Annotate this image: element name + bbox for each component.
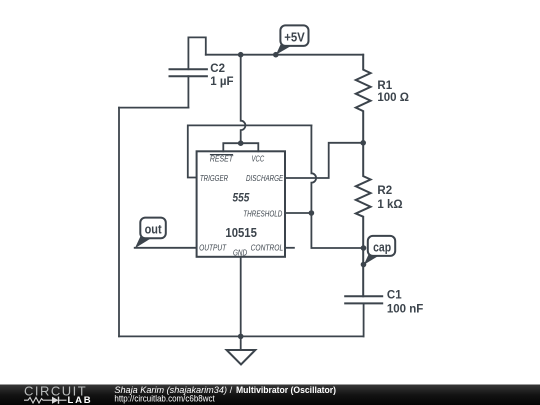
svg-text:CONTROL: CONTROL <box>251 242 284 252</box>
wire C2 bottom to left rail <box>119 107 188 109</box>
RESET overline <box>211 154 233 156</box>
svg-text:DISCHARGE: DISCHARGE <box>246 173 283 183</box>
resistor R2 <box>356 143 371 296</box>
svg-text:+5V: +5V <box>284 30 305 44</box>
resistor R1 <box>356 55 371 143</box>
node dot R1/R2/discharge <box>360 140 366 146</box>
svg-text:GND: GND <box>233 247 247 257</box>
C1 value label <box>387 290 423 316</box>
node dot cap flag <box>361 262 367 268</box>
wire THRESHOLD pin <box>285 212 311 214</box>
wire bottom rail (ground net) <box>119 335 364 337</box>
op-amp / IC 555 box U1 <box>197 151 285 256</box>
wire top rail (+5V net) <box>206 54 363 56</box>
ground symbol <box>227 350 256 364</box>
CircuitLab logo diode <box>52 397 59 404</box>
R1 value label <box>377 80 409 104</box>
svg-text:out: out <box>145 223 163 237</box>
node dot top rail / VCC <box>238 52 244 58</box>
svg-text:LAB: LAB <box>68 395 93 405</box>
capacitor C1 <box>345 296 382 336</box>
wire OUTPUT <box>135 247 197 249</box>
IC 555 pin labels <box>199 153 283 257</box>
svg-text:THRESHOLD: THRESHOLD <box>243 209 282 219</box>
node dot cap junction <box>361 245 367 251</box>
C2 value label <box>210 63 233 88</box>
flag +5V <box>276 25 309 54</box>
node dot RESET/VCC <box>238 140 244 146</box>
node dot threshold <box>309 210 315 216</box>
svg-text:100 nF: 100 nF <box>387 304 423 316</box>
wire GND pin <box>240 257 242 350</box>
node dot ground rail <box>238 334 244 340</box>
footer credits line 1 <box>114 385 336 395</box>
capacitor C2 <box>170 37 207 107</box>
svg-text:100 Ω: 100 Ω <box>377 92 409 104</box>
wire CONTROL stub <box>285 247 294 249</box>
flag out <box>135 218 166 249</box>
svg-text:C1: C1 <box>387 290 402 302</box>
wire TRIGGER loop <box>188 125 312 177</box>
wire trigger vertical (with hop over discharge wire) <box>311 125 316 213</box>
svg-text:OUTPUT: OUTPUT <box>199 242 227 252</box>
CircuitLab logo squiggle <box>24 397 67 404</box>
svg-text:http://circuitlab.com/c6b8wct: http://circuitlab.com/c6b8wct <box>114 394 215 404</box>
wire left rail <box>118 108 120 337</box>
svg-text:Multivibrator (Oscillator): Multivibrator (Oscillator) <box>236 385 336 395</box>
R2 value label <box>377 185 402 211</box>
wire DISCHARGE to R1/R2 junction <box>285 143 363 178</box>
svg-text:10515: 10515 <box>225 226 257 240</box>
wire threshold to cap node <box>311 213 363 248</box>
svg-text:cap: cap <box>373 240 391 254</box>
svg-text:R1: R1 <box>377 80 392 92</box>
footer bar <box>0 385 540 405</box>
svg-text:VCC: VCC <box>252 153 265 163</box>
flag cap <box>364 236 395 265</box>
svg-text:1 kΩ: 1 kΩ <box>377 199 402 211</box>
svg-text:TRIGGER: TRIGGER <box>200 173 228 183</box>
node dot +5V tail <box>273 52 279 58</box>
svg-text:1 µF: 1 µF <box>210 76 233 88</box>
wire RESET-VCC bracket <box>223 143 258 151</box>
svg-text:R2: R2 <box>377 185 392 197</box>
svg-text:C2: C2 <box>210 63 225 75</box>
wire +5V rail drop to 555 VCC (with hop over trigger wire) <box>241 55 246 144</box>
svg-text:555: 555 <box>233 193 250 205</box>
